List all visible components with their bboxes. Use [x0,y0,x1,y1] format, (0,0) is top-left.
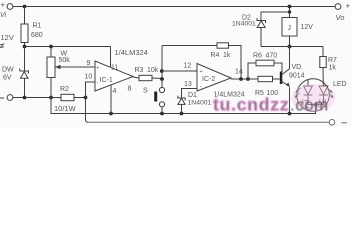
wire R6 left lead [248,63,256,79]
node R1 top junction [23,5,27,9]
potentiometer W [47,47,61,98]
node zener bottom junction [23,96,27,100]
svg-text:LED: LED [333,81,347,88]
wire top rail [13,6,335,8]
node pot top junction [49,45,53,49]
node LED cathode junction [314,103,318,107]
svg-text:+: + [200,69,203,75]
svg-text:IC-1: IC-1 [100,77,113,84]
resistor R5 [258,76,273,81]
node R6 output junction [246,77,250,81]
wire pin10 riser [86,82,96,98]
svg-text:1k: 1k [223,52,231,59]
svg-text:R2: R2 [60,86,69,93]
svg-text:680: 680 [31,32,43,39]
wire zener DW bottom lead [24,78,26,97]
svg-text:R4: R4 [211,52,220,59]
resistor R3 [139,75,152,80]
svg-text:10: 10 [85,74,93,81]
LED dual indicator [297,79,330,112]
node D1 bottom junction [180,112,184,116]
svg-text:1/4LM324: 1/4LM324 [115,48,148,57]
wire R3 right lead [152,77,162,80]
wire pin4 [110,85,112,114]
svg-text:IC-2: IC-2 [202,76,215,83]
diode D2 [257,12,290,47]
zener diode DW [20,69,29,79]
svg-text:50k: 50k [59,57,71,64]
terminal Vi+ [7,4,13,10]
wire IC-2 output pin14 [231,78,258,80]
svg-text:R6: R6 [253,53,262,60]
svg-text:11: 11 [111,65,118,72]
edge mark left break [0,44,4,48]
svg-text:-: - [200,84,202,90]
svg-text:+: + [346,2,351,11]
svg-text:13: 13 [184,81,192,88]
svg-text:Vi: Vi [0,12,7,19]
svg-text:8: 8 [128,86,132,93]
wire pin13 [182,89,198,99]
resistor R4 [217,43,229,48]
resistor R2 [61,94,74,100]
wire R6 right lead [274,63,282,72]
svg-text:14: 14 [235,69,243,76]
wire bottom-left rail [13,97,61,99]
svg-text:VD: VD [292,64,302,71]
svg-text:1N4001: 1N4001 [232,21,256,28]
wire R5 right lead [273,78,280,80]
LED light arrows left [294,88,300,98]
wire switch to ground [161,107,163,114]
wire R4 right lead [229,46,242,80]
wire pin11 [110,47,112,68]
node relay bottom junction [288,45,292,49]
wire R1 bottom lead [24,43,26,47]
svg-text:470: 470 [266,53,278,60]
svg-text:6V: 6V [3,75,12,82]
wire comparator input vertical [161,46,163,88]
svg-text:-: - [97,81,99,87]
terminal Vo+ [335,4,341,10]
wire relay node horizontal [261,46,323,48]
terminal Vo- [329,120,335,126]
svg-text:12: 12 [184,63,192,70]
node R4 output junction [239,77,243,81]
resistor R1 [21,24,28,43]
svg-text:R1: R1 [33,23,42,30]
svg-text:D1: D1 [188,92,197,99]
svg-text:J: J [288,25,292,32]
node switch bottom junction [160,112,164,116]
svg-text:10k: 10k [147,67,159,74]
wire IC-1 output pin8 [133,77,139,78]
transistor VD 9014 [280,47,290,114]
diode D1 [178,96,185,105]
wire zener DW top lead [24,47,26,72]
edge mark Vo- minus [342,122,348,124]
op-amp IC-1 [95,61,133,91]
node R3 junction [160,77,164,81]
wire wiper to pin9 [55,66,95,68]
resistor R7 [320,47,326,87]
svg-text:R7: R7 [328,57,337,64]
wire 12V node horizontal [25,46,111,48]
wire pin12 [162,70,197,72]
svg-text:1N4001: 1N4001 [188,100,212,107]
svg-text:S: S [143,88,148,95]
svg-text:9: 9 [87,60,91,67]
svg-text:R3: R3 [135,67,144,74]
wire R1 top lead [24,7,26,25]
node D2 top junction [288,10,291,13]
node emitter junction [288,112,292,116]
LED light arrows right [328,88,334,98]
node IC-1 pin4 junction [109,112,113,116]
wire circuit ground rail [51,98,316,114]
switch S [154,87,164,107]
edge mark Vi- minus [0,97,4,99]
wire to Vo- rail [86,98,89,123]
svg-text:tu.cndzz: tu.cndzz [213,95,289,115]
wire D1 bottom lead [181,104,183,113]
op-amp IC-2 [197,64,231,92]
svg-text:1k: 1k [329,65,337,72]
svg-text:+: + [96,66,99,72]
wire R2 right lead [74,97,86,99]
svg-text:4: 4 [113,88,117,95]
resistor R6 [256,60,274,66]
node relay top junction [288,5,292,9]
node ground-branch junction [49,96,53,100]
node R1 bottom junction [23,45,27,49]
svg-text:10/1W: 10/1W [54,104,77,113]
svg-text:9014: 9014 [289,73,305,80]
svg-text:Vo: Vo [336,13,345,22]
terminal Vi- [7,95,13,101]
svg-text:12V: 12V [1,33,14,42]
node R2 right junction [84,96,88,100]
svg-text:+: + [1,1,6,10]
svg-text:.com: .com [290,97,329,115]
relay J [282,7,297,47]
svg-text:DW: DW [2,67,14,74]
svg-text:12V: 12V [301,24,314,31]
wire R4 feedback top [162,45,217,47]
node pin12 junction [160,69,164,73]
